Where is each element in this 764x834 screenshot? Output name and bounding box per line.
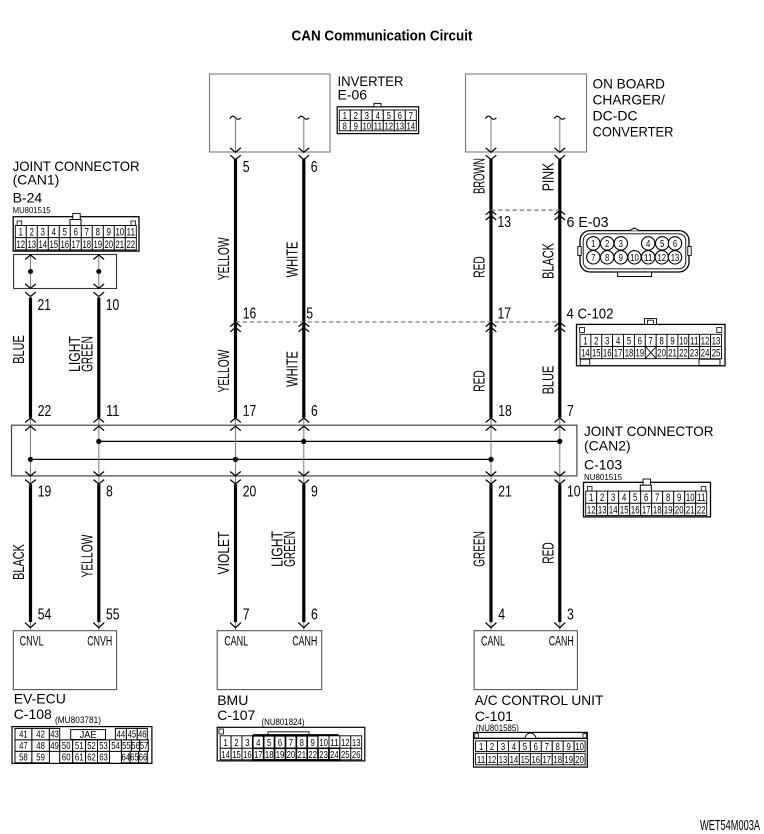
svg-text:17: 17	[543, 754, 552, 766]
svg-text:(CAN2): (CAN2)	[584, 438, 631, 454]
svg-text:C-101: C-101	[475, 708, 513, 724]
svg-text:2: 2	[30, 227, 34, 239]
svg-text:21: 21	[298, 749, 307, 761]
svg-text:6: 6	[311, 403, 318, 420]
svg-text:BMU: BMU	[217, 692, 248, 708]
svg-text:13: 13	[498, 214, 512, 231]
svg-text:3: 3	[619, 238, 623, 250]
svg-text:14: 14	[39, 239, 48, 251]
svg-text:12: 12	[587, 504, 596, 516]
svg-text:19: 19	[636, 348, 645, 360]
svg-text:BLACK: BLACK	[541, 243, 558, 279]
svg-text:CANH: CANH	[549, 632, 574, 648]
svg-text:8: 8	[659, 335, 663, 347]
svg-text:8: 8	[343, 120, 347, 132]
svg-text:6: 6	[74, 227, 78, 239]
svg-text:EV-ECU: EV-ECU	[14, 691, 66, 707]
svg-text:10: 10	[116, 227, 125, 239]
svg-text:9: 9	[311, 484, 318, 501]
svg-text:JAE: JAE	[80, 729, 97, 741]
svg-text:21: 21	[668, 348, 677, 360]
svg-text:24: 24	[701, 348, 710, 360]
svg-text:CNVH: CNVH	[87, 632, 112, 648]
svg-text:3: 3	[605, 335, 609, 347]
svg-text:9: 9	[677, 492, 681, 504]
svg-text:19: 19	[664, 504, 673, 516]
svg-text:6: 6	[644, 492, 648, 504]
svg-text:3: 3	[611, 492, 615, 504]
svg-text:10: 10	[319, 737, 328, 749]
svg-text:2: 2	[490, 741, 494, 753]
svg-text:18: 18	[83, 239, 92, 251]
svg-text:18: 18	[653, 504, 662, 516]
svg-text:47: 47	[19, 740, 28, 752]
svg-text:49: 49	[50, 740, 59, 752]
svg-text:RED: RED	[541, 542, 558, 564]
svg-text:61: 61	[75, 751, 84, 763]
svg-text:66: 66	[139, 751, 148, 763]
svg-text:17: 17	[498, 305, 512, 322]
svg-text:WHITE: WHITE	[285, 351, 302, 387]
svg-text:7: 7	[85, 227, 89, 239]
svg-text:20: 20	[657, 348, 666, 360]
svg-text:2: 2	[234, 737, 238, 749]
svg-text:2: 2	[600, 492, 604, 504]
svg-text:6: 6	[311, 159, 318, 176]
svg-text:RED: RED	[472, 370, 489, 392]
svg-text:11: 11	[697, 492, 706, 504]
svg-text:10: 10	[575, 741, 584, 753]
svg-text:WET54M003A: WET54M003A	[700, 818, 760, 834]
svg-text:25: 25	[712, 348, 721, 360]
svg-text:10: 10	[630, 252, 639, 264]
svg-text:22: 22	[697, 504, 706, 516]
svg-text:13: 13	[28, 239, 37, 251]
svg-text:C-107: C-107	[217, 707, 255, 723]
svg-text:DC-DC: DC-DC	[593, 108, 638, 124]
svg-text:16: 16	[243, 749, 252, 761]
svg-text:5: 5	[243, 159, 250, 176]
svg-text:1: 1	[589, 492, 593, 504]
svg-text:8: 8	[300, 737, 304, 749]
svg-text:1: 1	[223, 737, 227, 749]
svg-text:6: 6	[278, 737, 282, 749]
svg-text:13: 13	[499, 754, 508, 766]
svg-text:20: 20	[575, 754, 584, 766]
svg-text:6: 6	[673, 238, 677, 250]
svg-text:14: 14	[407, 120, 416, 132]
svg-text:CANH: CANH	[292, 633, 317, 649]
svg-text:13: 13	[396, 120, 405, 132]
svg-text:18: 18	[498, 403, 512, 420]
svg-text:7: 7	[243, 607, 250, 624]
svg-text:A/C CONTROL UNIT: A/C CONTROL UNIT	[475, 692, 604, 708]
svg-text:11: 11	[127, 227, 136, 239]
svg-text:54: 54	[111, 740, 120, 752]
svg-text:9: 9	[354, 120, 358, 132]
svg-text:CONVERTER: CONVERTER	[593, 124, 674, 140]
svg-text:19: 19	[564, 754, 573, 766]
svg-text:65: 65	[130, 751, 139, 763]
svg-text:14: 14	[581, 348, 590, 360]
svg-text:4 C-102: 4 C-102	[567, 305, 614, 322]
svg-text:9: 9	[567, 741, 571, 753]
svg-text:(CAN1): (CAN1)	[13, 172, 60, 188]
svg-text:12: 12	[17, 239, 26, 251]
svg-text:3: 3	[245, 737, 249, 749]
svg-text:3: 3	[501, 741, 505, 753]
svg-text:52: 52	[87, 740, 96, 752]
svg-text:8: 8	[106, 484, 113, 501]
svg-text:16: 16	[61, 239, 70, 251]
svg-text:PINK: PINK	[541, 162, 558, 191]
svg-text:14: 14	[221, 749, 230, 761]
svg-text:9: 9	[670, 335, 674, 347]
svg-text:7: 7	[655, 492, 659, 504]
svg-text:NU801515: NU801515	[584, 472, 622, 482]
svg-text:19: 19	[276, 749, 285, 761]
svg-text:1: 1	[583, 335, 587, 347]
svg-text:5: 5	[627, 335, 631, 347]
svg-text:VIOLET: VIOLET	[216, 531, 233, 574]
svg-text:13: 13	[712, 335, 721, 347]
svg-text:14: 14	[510, 754, 519, 766]
svg-text:CNVL: CNVL	[20, 632, 44, 648]
svg-text:BROWN: BROWN	[472, 158, 489, 194]
svg-text:(NU801824): (NU801824)	[262, 717, 305, 727]
svg-text:4: 4	[256, 737, 260, 749]
svg-text:3: 3	[567, 607, 574, 624]
svg-text:17: 17	[72, 239, 81, 251]
svg-text:15: 15	[232, 749, 241, 761]
svg-text:10: 10	[686, 492, 695, 504]
svg-text:6 E-03: 6 E-03	[567, 214, 609, 231]
svg-text:1: 1	[591, 238, 595, 250]
svg-text:8: 8	[96, 227, 100, 239]
svg-text:55: 55	[106, 607, 120, 624]
svg-text:9: 9	[311, 737, 315, 749]
svg-text:5: 5	[523, 741, 527, 753]
svg-text:7: 7	[289, 737, 293, 749]
svg-text:12: 12	[385, 120, 394, 132]
svg-text:C-103: C-103	[584, 457, 622, 473]
svg-text:7: 7	[545, 741, 549, 753]
svg-text:19: 19	[94, 239, 103, 251]
svg-text:E-06: E-06	[338, 87, 368, 103]
svg-text:20: 20	[675, 504, 684, 516]
svg-text:2: 2	[605, 238, 609, 250]
svg-text:GREEN: GREEN	[80, 336, 97, 372]
svg-text:11: 11	[330, 737, 339, 749]
svg-text:B-24: B-24	[13, 190, 43, 206]
svg-text:11: 11	[106, 403, 120, 420]
svg-text:4: 4	[512, 741, 516, 753]
svg-text:11: 11	[374, 120, 383, 132]
svg-text:20: 20	[105, 239, 114, 251]
svg-text:15: 15	[620, 504, 629, 516]
svg-text:24: 24	[330, 749, 339, 761]
svg-text:GREEN: GREEN	[472, 531, 489, 567]
svg-text:12: 12	[701, 335, 710, 347]
svg-text:4: 4	[616, 335, 620, 347]
svg-text:MU801515: MU801515	[13, 205, 51, 215]
svg-text:21: 21	[38, 297, 52, 314]
svg-text:13: 13	[598, 504, 607, 516]
svg-text:43: 43	[50, 729, 59, 741]
svg-text:BLACK: BLACK	[11, 544, 28, 580]
svg-text:6: 6	[311, 607, 318, 624]
svg-text:C-108: C-108	[14, 706, 52, 722]
svg-text:42: 42	[36, 729, 45, 741]
svg-text:16: 16	[631, 504, 640, 516]
svg-text:17: 17	[254, 749, 263, 761]
svg-text:16: 16	[532, 754, 541, 766]
svg-text:22: 22	[127, 239, 136, 251]
svg-text:11: 11	[690, 335, 699, 347]
svg-text:10: 10	[106, 297, 120, 314]
svg-text:6: 6	[638, 335, 642, 347]
svg-text:7: 7	[649, 335, 653, 347]
svg-text:7: 7	[567, 403, 574, 420]
svg-text:22: 22	[679, 348, 688, 360]
svg-text:17: 17	[614, 348, 623, 360]
svg-text:RED: RED	[472, 256, 489, 278]
svg-text:15: 15	[592, 348, 601, 360]
svg-text:3: 3	[41, 227, 45, 239]
svg-text:GREEN: GREEN	[282, 531, 299, 567]
svg-text:19: 19	[38, 484, 52, 501]
svg-text:CANL: CANL	[224, 633, 248, 649]
svg-text:11: 11	[477, 754, 486, 766]
svg-text:44: 44	[117, 729, 126, 741]
svg-text:18: 18	[265, 749, 274, 761]
svg-text:13: 13	[671, 252, 680, 264]
svg-text:12: 12	[341, 737, 350, 749]
svg-text:25: 25	[341, 749, 350, 761]
svg-text:22: 22	[38, 403, 52, 420]
svg-text:55: 55	[122, 740, 131, 752]
svg-text:21: 21	[116, 239, 125, 251]
svg-text:5: 5	[63, 227, 67, 239]
svg-text:WHITE: WHITE	[285, 242, 302, 278]
svg-text:11: 11	[644, 252, 653, 264]
svg-text:53: 53	[99, 740, 108, 752]
svg-text:20: 20	[287, 749, 296, 761]
svg-text:CHARGER/: CHARGER/	[593, 92, 666, 108]
svg-text:23: 23	[690, 348, 699, 360]
svg-text:BLUE: BLUE	[11, 335, 28, 364]
svg-text:13: 13	[352, 737, 361, 749]
svg-text:50: 50	[62, 740, 71, 752]
svg-text:2: 2	[594, 335, 598, 347]
svg-text:YELLOW: YELLOW	[216, 349, 233, 392]
svg-text:9: 9	[619, 252, 623, 264]
svg-text:8: 8	[666, 492, 670, 504]
svg-text:18: 18	[553, 754, 562, 766]
svg-text:(NU801585): (NU801585)	[476, 723, 519, 733]
svg-text:48: 48	[36, 740, 45, 752]
svg-text:5: 5	[633, 492, 637, 504]
svg-text:1: 1	[479, 741, 483, 753]
svg-text:12: 12	[488, 754, 497, 766]
svg-text:8: 8	[556, 741, 560, 753]
svg-text:4: 4	[622, 492, 626, 504]
svg-text:41: 41	[19, 729, 28, 741]
svg-text:63: 63	[99, 751, 108, 763]
svg-text:46: 46	[138, 729, 147, 741]
svg-text:16: 16	[603, 348, 612, 360]
svg-text:21: 21	[498, 484, 512, 501]
svg-text:YELLOW: YELLOW	[79, 534, 96, 577]
svg-text:18: 18	[625, 348, 634, 360]
svg-text:7: 7	[591, 252, 595, 264]
svg-text:10: 10	[567, 484, 581, 501]
svg-text:23: 23	[319, 749, 328, 761]
svg-text:14: 14	[609, 504, 618, 516]
svg-text:51: 51	[75, 740, 84, 752]
svg-text:64: 64	[122, 751, 131, 763]
svg-text:21: 21	[686, 504, 695, 516]
svg-text:6: 6	[534, 741, 538, 753]
svg-text:4: 4	[498, 607, 505, 624]
svg-text:ON BOARD: ON BOARD	[593, 76, 666, 92]
svg-text:CAN Communication Circuit: CAN Communication Circuit	[292, 28, 473, 45]
svg-text:5: 5	[306, 305, 313, 322]
svg-text:CANL: CANL	[481, 632, 505, 648]
svg-text:4: 4	[52, 227, 56, 239]
svg-text:10: 10	[363, 120, 372, 132]
svg-text:4: 4	[646, 238, 650, 250]
svg-text:54: 54	[38, 607, 52, 624]
svg-text:9: 9	[107, 227, 111, 239]
svg-text:57: 57	[140, 740, 149, 752]
svg-text:20: 20	[243, 484, 257, 501]
svg-text:58: 58	[19, 751, 28, 763]
svg-text:17: 17	[642, 504, 651, 516]
svg-text:5: 5	[660, 238, 664, 250]
svg-text:59: 59	[36, 751, 45, 763]
svg-text:16: 16	[243, 305, 257, 322]
svg-text:10: 10	[679, 335, 688, 347]
svg-text:BLUE: BLUE	[541, 366, 558, 395]
svg-text:(MU803781): (MU803781)	[55, 715, 101, 725]
svg-text:62: 62	[87, 751, 96, 763]
svg-text:8: 8	[605, 252, 609, 264]
svg-text:12: 12	[658, 252, 667, 264]
svg-text:15: 15	[521, 754, 530, 766]
svg-text:60: 60	[62, 751, 71, 763]
svg-text:15: 15	[50, 239, 59, 251]
svg-text:5: 5	[267, 737, 271, 749]
svg-text:26: 26	[352, 749, 361, 761]
svg-text:22: 22	[308, 749, 317, 761]
svg-text:17: 17	[243, 403, 257, 420]
svg-text:YELLOW: YELLOW	[216, 237, 233, 280]
svg-text:1: 1	[19, 227, 23, 239]
svg-text:45: 45	[128, 729, 137, 741]
